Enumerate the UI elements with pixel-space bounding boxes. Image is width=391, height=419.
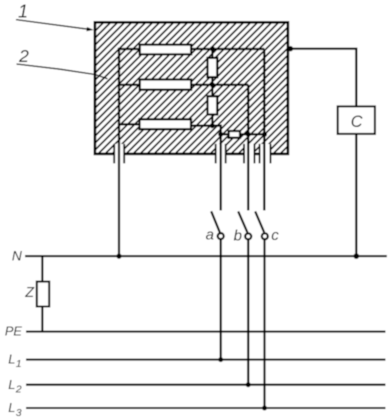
svg-text:L: L bbox=[8, 400, 15, 415]
svg-text:1: 1 bbox=[18, 2, 28, 22]
svg-text:L: L bbox=[8, 351, 15, 366]
svg-text:N: N bbox=[12, 249, 22, 264]
svg-text:a: a bbox=[206, 227, 214, 244]
svg-text:b: b bbox=[234, 227, 242, 244]
svg-text:L: L bbox=[8, 377, 15, 392]
svg-text:C: C bbox=[351, 113, 363, 131]
svg-text:2: 2 bbox=[15, 384, 22, 396]
svg-text:PE: PE bbox=[5, 324, 23, 339]
svg-text:1: 1 bbox=[16, 358, 22, 370]
svg-text:Z: Z bbox=[24, 285, 35, 301]
svg-text:c: c bbox=[271, 227, 279, 244]
svg-text:3: 3 bbox=[16, 407, 22, 419]
svg-text:2: 2 bbox=[18, 46, 29, 66]
